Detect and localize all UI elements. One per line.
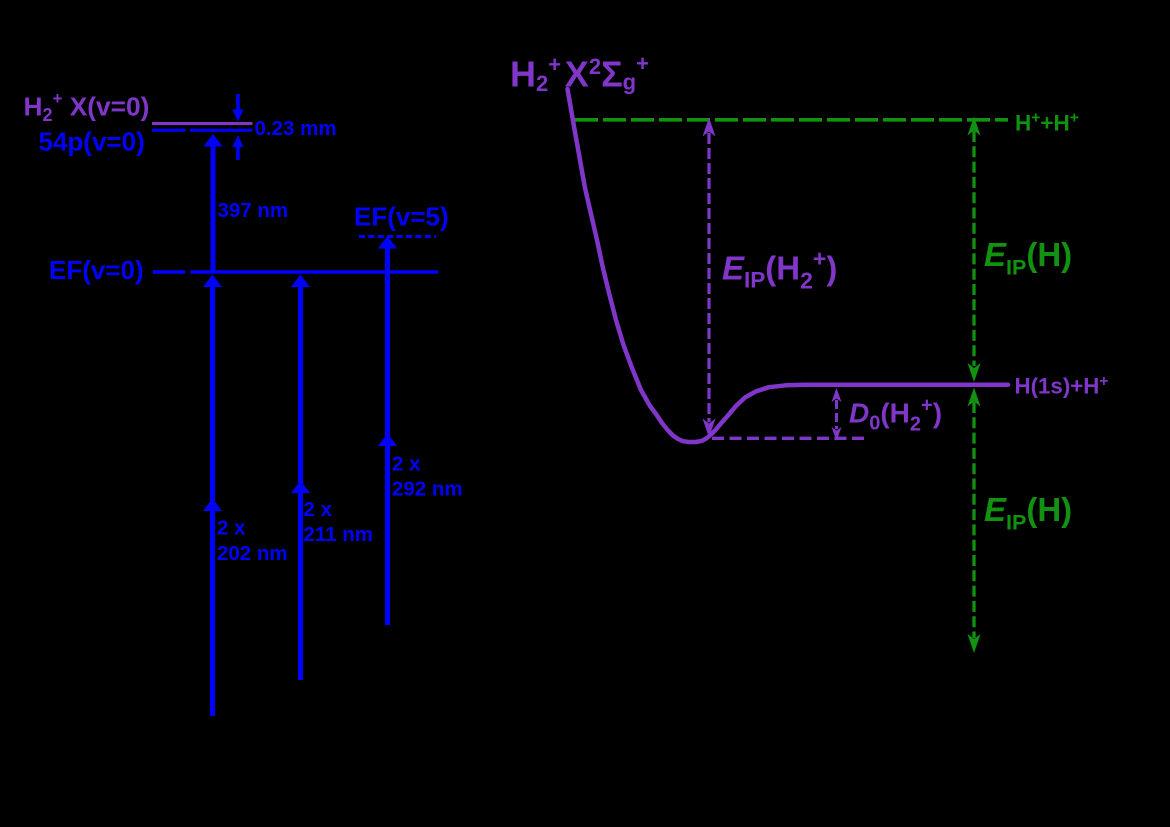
svg-text:54p(v=0): 54p(v=0) — [39, 127, 145, 157]
svg-text:2 x: 2 x — [392, 452, 421, 475]
svg-text:2 x: 2 x — [304, 498, 333, 521]
svg-text:H++H+: H++H+ — [1015, 109, 1079, 135]
svg-text:2 x: 2 x — [217, 517, 246, 540]
svg-text:EIP(H): EIP(H) — [984, 491, 1072, 535]
svg-text:397 nm: 397 nm — [218, 199, 289, 222]
svg-text:EF(v=0): EF(v=0) — [49, 255, 144, 285]
svg-text:H2+ X(v=0): H2+ X(v=0) — [24, 89, 150, 125]
svg-text:H(1s)+H+: H(1s)+H+ — [1015, 373, 1109, 399]
svg-text:202 nm: 202 nm — [217, 542, 288, 565]
svg-text:0.23 mm: 0.23 mm — [255, 117, 337, 140]
svg-text:292 nm: 292 nm — [392, 478, 463, 501]
svg-text:EF(v=5): EF(v=5) — [354, 201, 449, 231]
svg-text:211 nm: 211 nm — [304, 523, 374, 546]
svg-text:EIP(H): EIP(H) — [984, 236, 1072, 280]
